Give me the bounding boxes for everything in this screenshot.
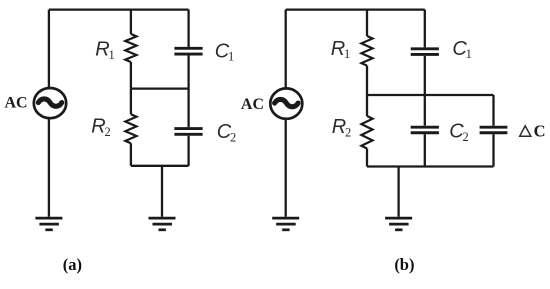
wire C1 top stub (a) — [187, 10, 189, 47]
resistor R2 (b) — [361, 116, 372, 149]
wire left vertical bottom (a) — [48, 119, 50, 217]
capacitor C2 (a) — [174, 129, 202, 135]
svg-text:C: C — [534, 122, 546, 141]
wire R1 top stub (b) — [366, 10, 368, 36]
wire R2 bottom stub (b) — [366, 149, 368, 167]
wire left vertical bottom (b) — [285, 119, 287, 216]
wire R1 top stub (a) — [130, 10, 132, 34]
wire R2 top stub (a) — [130, 89, 132, 115]
wire bottom horizontal (b) — [367, 165, 494, 167]
resistor R1 (a) — [125, 34, 136, 62]
wire left vertical top (a) — [48, 10, 50, 88]
capacitor C1 (a) — [174, 48, 202, 54]
wire ground stem (a) — [161, 166, 163, 217]
AC source V2 (b) — [270, 88, 302, 118]
wire C2 bottom stub (b) — [424, 134, 426, 166]
ground (b, bottom) — [385, 218, 412, 230]
resistor R1 (b) — [361, 36, 372, 66]
wire R1 bottom stub (a) — [130, 62, 132, 89]
svg-text:AC: AC — [241, 96, 264, 113]
svg-text:AC: AC — [4, 94, 27, 111]
wire C1 top stub (b) — [424, 10, 426, 48]
capacitor deltaC (b) — [480, 127, 508, 133]
wire R2 top stub (b) — [366, 95, 368, 116]
wire middle horizontal (a) — [131, 87, 189, 89]
wire top horizontal (b) — [286, 8, 425, 10]
wire R1 bottom stub (b) — [366, 66, 368, 95]
wire R2 bottom stub (a) — [130, 143, 132, 166]
wire C1 bottom stub (b) — [424, 56, 426, 95]
svg-text:(b): (b) — [394, 255, 414, 274]
wire deltaC top stub (b) — [492, 95, 494, 126]
wire C2 top stub (a) — [187, 89, 189, 128]
wire C2 bottom stub (a) — [187, 136, 189, 166]
capacitor C1 (b) — [411, 49, 439, 55]
wire top horizontal (a) — [49, 8, 189, 10]
label deltaC (b) — [520, 122, 546, 141]
ground (a, source) — [35, 218, 62, 230]
AC source V1 (a) — [34, 88, 66, 118]
wire ground stem (b) — [397, 167, 399, 217]
wire deltaC bottom stub (b) — [492, 134, 494, 166]
wire C2 top stub (b) — [424, 95, 426, 126]
wire left vertical top (b) — [285, 10, 287, 88]
resistor R2 (a) — [125, 114, 136, 143]
wire middle horizontal (b) — [367, 94, 494, 96]
ground (b, source) — [272, 218, 299, 230]
svg-text:(a): (a) — [63, 255, 82, 274]
capacitor C2 (b) — [411, 127, 439, 133]
wire bottom horizontal (a) — [131, 165, 189, 167]
wire C1 bottom stub (a) — [187, 56, 189, 89]
ground (a, bottom) — [149, 218, 176, 230]
